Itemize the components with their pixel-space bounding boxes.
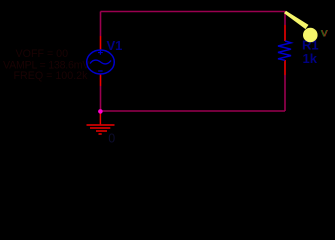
- svg-text:V1: V1: [107, 38, 123, 53]
- svg-text:FREQ = 100.2k: FREQ = 100.2k: [14, 70, 89, 82]
- svg-text:V: V: [322, 29, 329, 40]
- svg-text:1k: 1k: [303, 51, 318, 66]
- svg-text:VOFF = 00: VOFF = 00: [16, 48, 69, 60]
- svg-text:0: 0: [108, 132, 115, 146]
